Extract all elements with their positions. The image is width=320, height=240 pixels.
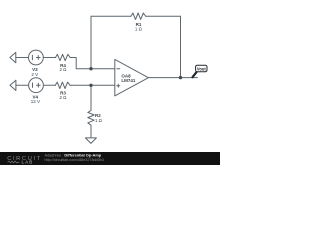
wire feedback right vertical: [180, 16, 182, 77]
wire R3 to op-amp non-inverting input: [70, 84, 115, 86]
resistor R2: [88, 111, 94, 126]
Vout flag tail: [193, 72, 197, 78]
wire feedback left vertical: [90, 16, 92, 68]
svg-text:2 V: 2 V: [31, 72, 38, 77]
wire op-amp output: [148, 77, 197, 79]
junction node at inverting input: [89, 67, 92, 70]
wire R4 to op-amp inverting input: [70, 58, 115, 69]
voltage source V3: [29, 50, 44, 65]
wire R2 to ground: [90, 125, 92, 138]
svg-text:LM741: LM741: [121, 78, 136, 83]
wire top to R1: [91, 15, 131, 17]
wire ground to V4: [16, 84, 29, 86]
svg-text:Adashree : Differential Op-Amp: Adashree : Differential Op-Amp: [45, 153, 102, 158]
svg-text:1 Ω: 1 Ω: [95, 118, 103, 123]
voltage source V4: [29, 78, 44, 93]
op-amp minus sign: [117, 68, 120, 70]
resistor R3: [55, 82, 70, 88]
wire junction to R2: [90, 85, 92, 110]
svg-text:LAB: LAB: [22, 160, 34, 165]
svg-text:Vout: Vout: [197, 66, 206, 71]
wire R1 to right vertical: [146, 15, 181, 17]
logo zigzag: [8, 161, 20, 163]
op-amp plus sign: [117, 85, 120, 87]
Vout flag box: [196, 65, 207, 72]
svg-text:2 Ω: 2 Ω: [60, 95, 68, 100]
wire V3 to R4: [43, 57, 55, 59]
ground (left) for V3: [10, 52, 16, 62]
junction node at non-inverting input: [89, 84, 92, 87]
svg-text:12 V: 12 V: [31, 99, 40, 104]
resistor R1: [131, 13, 146, 19]
resistor R4: [56, 54, 71, 60]
wire V4 to R3: [43, 84, 55, 86]
ground (down) below R2: [85, 138, 96, 144]
svg-text:1 Ω: 1 Ω: [135, 27, 143, 32]
junction node at output: [179, 76, 182, 79]
svg-text:2 Ω: 2 Ω: [60, 67, 68, 72]
op-amp OA8 LM741 triangle: [115, 59, 149, 96]
wire ground to V3: [16, 57, 29, 59]
svg-text:http://circuitlab.com/c88e3278: http://circuitlab.com/c88e3278dd0b3: [45, 158, 104, 162]
ground (left) for V4: [10, 80, 16, 90]
footer bar: [0, 152, 220, 165]
